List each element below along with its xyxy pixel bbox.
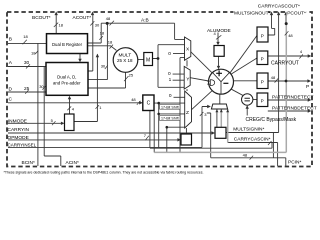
- svg-text:30: 30: [39, 84, 44, 89]
- slash ACOUT 30: [90, 21, 94, 25]
- svg-text:and Pre-adder: and Pre-adder: [53, 80, 81, 85]
- wire Z zero stub: [174, 96, 185, 98]
- svg-text:25 X 18: 25 X 18: [117, 58, 133, 63]
- wire PATTERNDETECT: [268, 99, 310, 101]
- mux X: [185, 37, 191, 60]
- P out arrow: [307, 79, 311, 82]
- slash A 30: [26, 64, 30, 68]
- slash BCOUT 18: [54, 23, 58, 27]
- wire Y zero one stubs: [173, 74, 185, 80]
- wire CARRYCASCIN rail: [228, 143, 278, 167]
- register ALUMODE: [214, 46, 224, 57]
- svg-text:BCOUT*: BCOUT*: [32, 15, 51, 21]
- svg-text:ALUMODE: ALUMODE: [207, 28, 231, 34]
- MULTSIGNOUT arrow: [277, 12, 280, 16]
- svg-text:18: 18: [108, 40, 113, 45]
- svg-text:M: M: [146, 58, 150, 64]
- slash P3 48: [275, 79, 279, 83]
- svg-text:D: D: [9, 86, 13, 92]
- wire PCOUT vertical: [285, 14, 287, 24]
- ALUMODE into ALU arrow: [217, 66, 220, 69]
- slash AB 48: [110, 21, 115, 26]
- wire B to pre-adder: [79, 54, 81, 62]
- node C output junction: [157, 102, 160, 105]
- CARRYIN into reg arrow: [211, 131, 215, 134]
- wire P to edge: [268, 80, 310, 82]
- wire B register output to A:B junction: [88, 23, 102, 43]
- svg-text:C: C: [147, 100, 151, 106]
- slash AD 25: [124, 76, 128, 81]
- slash OPMODE 7: [145, 136, 149, 140]
- wire CARRYINSEL rail: [8, 107, 209, 148]
- register CARRYIN: [215, 127, 226, 138]
- register P2 carryout: [257, 51, 268, 65]
- register INMODE: [65, 114, 75, 131]
- svg-text:25: 25: [129, 72, 134, 77]
- wire X output to ALU: [191, 52, 212, 73]
- node PCIN junction: [166, 126, 169, 129]
- slash BCIN 18: [35, 51, 38, 54]
- svg-text:P: P: [261, 57, 264, 62]
- wire PATTERNBDETECT: [268, 110, 310, 112]
- svg-text:CREG/C Bypass/Mask: CREG/C Bypass/Mask: [246, 117, 297, 123]
- slash PCIN 48: [250, 156, 254, 160]
- gray cascade rails: [154, 24, 286, 152]
- register P1 carrycascout: [257, 27, 268, 42]
- wire mask riser: [153, 111, 155, 153]
- svg-text:*These signals are dedicated r: *These signals are dedicated routing pat…: [4, 171, 204, 175]
- BCOUT arrow: [55, 12, 58, 16]
- wire B input rail: [8, 42, 47, 44]
- wire A:B bus to X mux: [101, 23, 184, 39]
- wire AD to MULT: [88, 72, 126, 88]
- slash A out 30: [105, 65, 108, 69]
- wire A output up to A:B junction: [88, 23, 107, 79]
- svg-text:P: P: [261, 99, 264, 104]
- ALU circle: [209, 69, 234, 94]
- svg-text:OPMODE: OPMODE: [8, 135, 29, 141]
- wire X zero stub: [173, 53, 185, 55]
- wire BCOUT: [55, 14, 57, 35]
- wire CARRYIN rail: [8, 132, 214, 134]
- wire OPMODE rail: [8, 139, 180, 141]
- label MULTSIGNOUT*: [234, 10, 271, 17]
- node PCOUT junction: [285, 22, 288, 25]
- wire ALU carry from funnel: [219, 94, 221, 104]
- pattern comparator equals: [242, 94, 253, 105]
- wire ALUMODE into reg: [217, 33, 219, 45]
- slash PCOUT 48: [285, 31, 289, 35]
- svg-text:0: 0: [168, 71, 171, 77]
- PATTERNBDETECT out arrow: [308, 109, 312, 112]
- slash CARRYCASCIN 48: [268, 141, 272, 145]
- wire PCIN: [207, 113, 286, 166]
- wire MULT to M register: [138, 59, 144, 61]
- svg-text:CARRYIN: CARRYIN: [8, 127, 30, 133]
- wire OPMODE reg up: [185, 60, 188, 134]
- svg-text:PATTERNDETECT: PATTERNDETECT: [272, 94, 314, 100]
- svg-text:48: 48: [131, 97, 136, 102]
- wire ALU to P2: [231, 58, 258, 75]
- register M: [144, 53, 153, 66]
- wire P feedback rail: [154, 151, 286, 153]
- svg-text:PCOUT*: PCOUT*: [287, 11, 306, 17]
- mux Y: [184, 66, 190, 89]
- slash INMODE preadder 4: [67, 106, 71, 110]
- 17-bit shift box 1: [160, 104, 180, 109]
- funnel tick 3: [226, 109, 229, 112]
- INMODE into reg arrow: [61, 122, 65, 125]
- svg-text:A:B: A:B: [141, 17, 149, 23]
- slash B down 18: [110, 45, 114, 49]
- wire INMODE reg up to pre-adder: [69, 98, 71, 115]
- svg-text:P: P: [306, 84, 309, 90]
- PATTERNDETECT out arrow: [308, 98, 312, 101]
- wire C bypass riser left: [149, 111, 151, 148]
- svg-text:CARRYCASCOUT*: CARRYCASCOUT*: [258, 4, 300, 10]
- Dual B Register: [47, 34, 88, 54]
- wire C input rail: [8, 102, 142, 104]
- wire B register output to MULT: [88, 46, 117, 51]
- 17-bit shift box 2: [160, 115, 180, 120]
- dashed slice border: [7, 12, 312, 167]
- wire M output to X and Y: [153, 45, 185, 88]
- wire Z output to ALU: [192, 90, 213, 109]
- bus-width slashes: [23, 21, 303, 160]
- wire BCIN vertical: [37, 43, 39, 166]
- CARRYOUT out arrow: [308, 54, 312, 57]
- slash D 25: [25, 90, 29, 94]
- svg-text:48: 48: [243, 152, 248, 157]
- svg-text:25: 25: [24, 86, 30, 92]
- mask into equals arrow: [246, 105, 249, 108]
- funnel tick 1: [215, 109, 218, 112]
- INMODE up into dual B arrow: [96, 54, 99, 58]
- svg-text:18: 18: [31, 50, 36, 55]
- node P output junction: [285, 80, 288, 83]
- wire funnel feeds down: [216, 109, 218, 127]
- svg-text:P: P: [261, 34, 264, 39]
- svg-text:P: P: [261, 80, 264, 85]
- svg-text:18: 18: [59, 23, 64, 28]
- label PCOUT*: [287, 10, 307, 17]
- svg-text:48: 48: [288, 33, 293, 38]
- register P4 pattern detect: [257, 93, 268, 107]
- carry select funnel: [211, 104, 227, 109]
- svg-text:INMODE: INMODE: [8, 119, 27, 125]
- svg-text:Z: Z: [186, 110, 189, 116]
- ACOUT arrow: [91, 12, 94, 16]
- svg-text:CARRYCASCIN*: CARRYCASCIN*: [234, 137, 271, 143]
- CARRYINSEL into funnel arrow: [207, 105, 211, 108]
- node M output junction: [157, 57, 160, 60]
- svg-text:1: 1: [169, 77, 172, 83]
- INMODE up into pre-adder arrow: [68, 96, 71, 100]
- svg-text:0: 0: [168, 51, 171, 57]
- svg-text:C: C: [9, 96, 13, 102]
- svg-text:MULTSIGNOUT*: MULTSIGNOUT*: [234, 11, 271, 17]
- wire INMODE rail: [8, 122, 63, 124]
- svg-text:18: 18: [100, 31, 105, 36]
- C into reg arrow: [139, 101, 143, 104]
- svg-text:48: 48: [106, 16, 111, 21]
- wire equals to P4: [253, 99, 257, 101]
- wire ALUMODE reg to ALU: [218, 56, 220, 68]
- svg-text:18: 18: [23, 34, 28, 39]
- wire D input rail: [8, 91, 48, 93]
- mux Z: [185, 91, 192, 128]
- slash B out 18: [99, 36, 103, 40]
- wire MULTSIGNIN rail: [226, 133, 279, 158]
- svg-text:Dual A, D,: Dual A, D,: [57, 74, 76, 79]
- node A:B junction: [106, 22, 109, 25]
- register OPMODE: [181, 134, 192, 145]
- slash INMODE 5: [52, 121, 56, 125]
- svg-text:ACIN*: ACIN*: [66, 160, 79, 166]
- PCOUT arrow: [284, 12, 287, 16]
- wire ACOUT: [88, 14, 93, 72]
- svg-text:48: 48: [271, 75, 276, 80]
- wire shift riser to rail: [158, 114, 160, 148]
- funnel tick 2: [220, 109, 223, 112]
- wire ALU to equals comparator: [230, 88, 244, 96]
- svg-text:PATTERNBDETECT: PATTERNBDETECT: [272, 106, 317, 112]
- register C: [143, 95, 154, 111]
- wire ACIN vertical: [44, 67, 61, 167]
- svg-text:30: 30: [95, 23, 100, 28]
- node C shift junction: [157, 113, 160, 116]
- wire MULTSIGNOUT vertical: [278, 14, 280, 133]
- wire C reg to Z inputs: [154, 103, 185, 114]
- svg-text:MULTSIGNIN*: MULTSIGNIN*: [233, 126, 264, 132]
- wire funnel gray feed mid: [220, 109, 222, 127]
- svg-text:Dual B Register: Dual B Register: [52, 42, 83, 47]
- wire funnel gray feed right: [227, 109, 229, 143]
- wire ALU to P3: [234, 80, 258, 82]
- wire PCIN riser and Z bottom input: [167, 127, 185, 152]
- wire mask into equals: [246, 106, 248, 116]
- wire P1 to CARRYCASCOUT: [268, 14, 275, 36]
- slash ACIN 30: [42, 86, 46, 90]
- svg-text:17-Bit Shift: 17-Bit Shift: [161, 117, 179, 121]
- svg-text:ACOUT*: ACOUT*: [73, 15, 92, 21]
- svg-text:17-Bit Shift: 17-Bit Shift: [161, 105, 179, 109]
- wire ALU to P1: [230, 36, 257, 74]
- arrowheads: [55, 12, 312, 142]
- svg-text:B: B: [9, 37, 12, 43]
- slash ALUMODE 4: [216, 35, 221, 39]
- wire bypass rail: [150, 143, 272, 149]
- B into pre-adder arrow: [78, 59, 81, 62]
- wire P feedback vertical: [285, 24, 287, 152]
- CARRYCASCOUT arrow: [270, 12, 273, 16]
- svg-text:PCIN*: PCIN*: [288, 159, 301, 165]
- wire INMODE reg to Dual B: [74, 54, 97, 121]
- wire A input rail: [8, 66, 48, 68]
- multiplier MULT 25x18: [113, 48, 138, 73]
- svg-text:BCIN*: BCIN*: [22, 160, 35, 166]
- slash INMODE dualb 1: [96, 105, 100, 109]
- ALUMODE into reg arrow: [216, 42, 219, 45]
- slash CARRYOUT 4: [299, 54, 303, 58]
- svg-text:30: 30: [24, 60, 30, 66]
- svg-text:CARRYINSEL: CARRYINSEL: [8, 142, 37, 147]
- wire Y output to ALU: [190, 78, 209, 81]
- slash C 48: [137, 101, 141, 105]
- wire P feedback to X riser: [180, 58, 185, 153]
- svg-text:CARRYOUT: CARRYOUT: [271, 60, 299, 66]
- slash B 18: [23, 40, 27, 45]
- svg-text:30: 30: [101, 63, 106, 68]
- slash CARRYINSEL 3: [200, 112, 204, 116]
- ALU logic and-gate glyph: [207, 80, 215, 86]
- OPMODE into reg arrow: [177, 138, 181, 141]
- Dual A, D and Pre-adder: [46, 63, 88, 96]
- register P3 output: [257, 73, 268, 89]
- svg-text:0: 0: [169, 93, 172, 99]
- wire CARRYOUT to edge: [268, 55, 310, 57]
